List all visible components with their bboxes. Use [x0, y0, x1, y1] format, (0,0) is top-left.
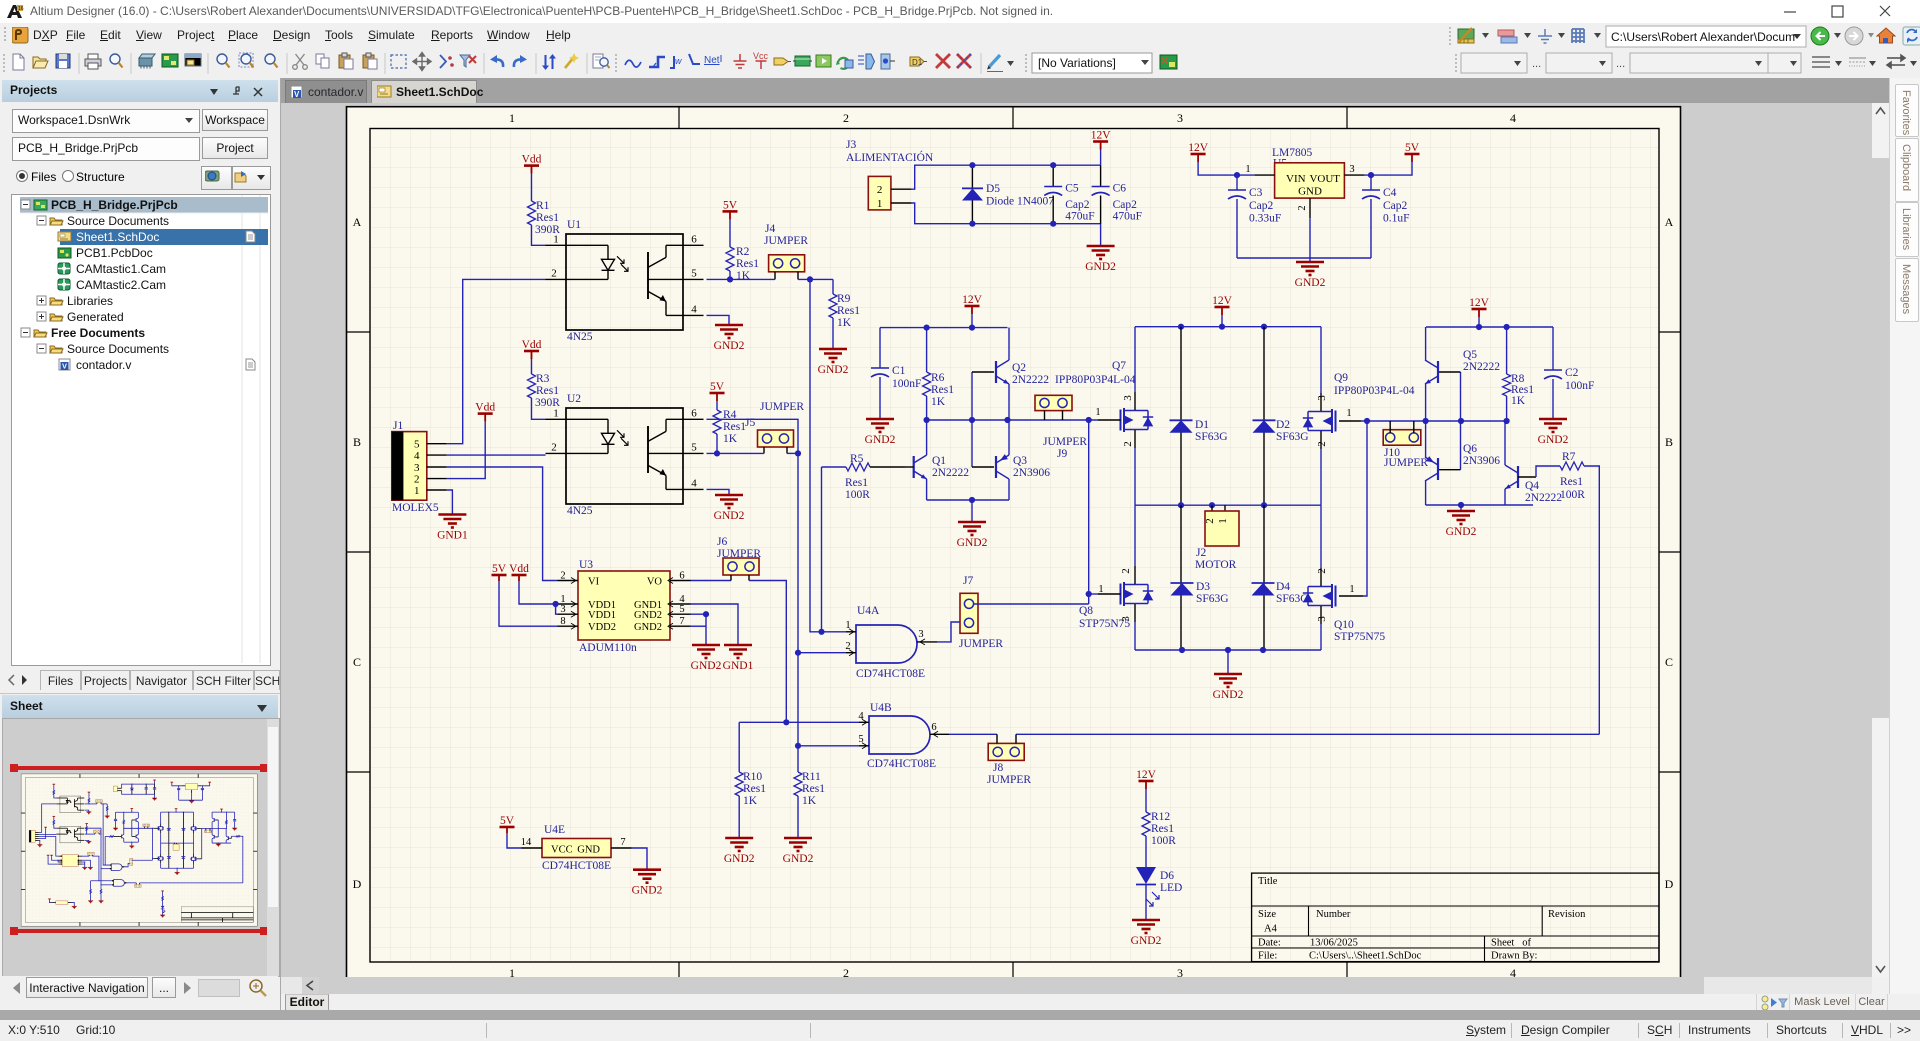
svg-text:5: 5: [691, 267, 697, 279]
svg-text:Q7: Q7: [1112, 360, 1126, 372]
svg-text:GND2: GND2: [1538, 434, 1569, 446]
svg-text:12V: 12V: [1212, 295, 1233, 307]
svg-text:A4: A4: [1264, 924, 1278, 935]
svg-text:Cap2: Cap2: [1383, 200, 1408, 212]
svg-text:GND2: GND2: [1213, 689, 1244, 701]
svg-text:4N25: 4N25: [567, 331, 593, 343]
svg-text:Sheet of: Sheet of: [1491, 938, 1531, 949]
svg-text:C: C: [1665, 655, 1673, 669]
svg-text:R10: R10: [743, 771, 762, 783]
svg-text:2: 2: [843, 966, 849, 977]
svg-text:1: 1: [509, 111, 515, 125]
svg-text:C6: C6: [1113, 183, 1127, 195]
svg-text:100nF: 100nF: [892, 378, 921, 390]
svg-text:GND2: GND2: [714, 340, 745, 352]
svg-text:GND2: GND2: [1446, 526, 1477, 538]
svg-text:Q8: Q8: [1079, 605, 1093, 617]
svg-text:J1: J1: [393, 420, 403, 432]
svg-text:R12: R12: [1151, 811, 1170, 823]
svg-text:470uF: 470uF: [1113, 211, 1142, 223]
svg-text:3: 3: [1349, 164, 1354, 175]
svg-text:D4: D4: [1276, 581, 1290, 593]
svg-text:1K: 1K: [837, 317, 852, 329]
svg-text:D: D: [1665, 877, 1674, 891]
svg-text:12V: 12V: [1091, 130, 1112, 142]
svg-text:Q2: Q2: [1012, 362, 1026, 374]
svg-text:JUMPER: JUMPER: [760, 401, 804, 413]
svg-text:1: 1: [509, 966, 515, 977]
svg-text:R9: R9: [837, 293, 851, 305]
svg-text:JUMPER: JUMPER: [1043, 436, 1087, 448]
svg-text:GND2: GND2: [632, 885, 663, 897]
svg-text:CD74HCT08E: CD74HCT08E: [867, 758, 936, 770]
svg-text:2: 2: [877, 184, 883, 196]
svg-text:A: A: [1665, 215, 1674, 229]
svg-text:R1: R1: [536, 200, 550, 212]
svg-text:VOUT: VOUT: [1309, 173, 1340, 185]
svg-text:1: 1: [1098, 584, 1103, 595]
svg-text:GND1: GND1: [723, 660, 754, 672]
svg-text:3: 3: [1316, 616, 1328, 622]
svg-text:GND2: GND2: [691, 660, 722, 672]
svg-text:5V: 5V: [500, 815, 515, 827]
svg-text:1: 1: [1095, 407, 1100, 418]
svg-text:PCB_H_Bridge.PrjPcb: PCB_H_Bridge.PrjPcb: [51, 198, 178, 212]
svg-text:IPP80P03P4L-04: IPP80P03P4L-04: [1334, 385, 1415, 397]
svg-text:GND2: GND2: [865, 434, 896, 446]
svg-text:B: B: [1665, 435, 1673, 449]
svg-text:Q1: Q1: [932, 455, 946, 467]
svg-text:GND2: GND2: [957, 537, 988, 549]
svg-text:GND1: GND1: [437, 530, 468, 542]
svg-text:1: 1: [414, 485, 420, 497]
svg-text:VO: VO: [647, 577, 663, 588]
svg-text:6: 6: [691, 233, 697, 245]
svg-text:1K: 1K: [931, 396, 946, 408]
svg-text:3: 3: [1316, 395, 1328, 401]
svg-text:GND2: GND2: [714, 510, 745, 522]
svg-text:GND: GND: [577, 845, 600, 856]
svg-text:3: 3: [1177, 966, 1183, 977]
svg-text:Vdd: Vdd: [509, 563, 529, 575]
svg-text:2N2222: 2N2222: [1463, 361, 1500, 373]
svg-text:STP75N75: STP75N75: [1334, 631, 1385, 643]
svg-text:1: 1: [1217, 518, 1229, 524]
svg-text:CD74HCT08E: CD74HCT08E: [856, 668, 925, 680]
svg-text:Res1: Res1: [536, 385, 559, 397]
svg-text:Drawn By:: Drawn By:: [1491, 950, 1537, 961]
svg-text:4N25: 4N25: [567, 505, 593, 517]
svg-text:SF63G: SF63G: [1276, 431, 1309, 443]
svg-text:Res1: Res1: [736, 258, 759, 270]
svg-text:7: 7: [620, 837, 625, 848]
svg-text:U4E: U4E: [544, 824, 565, 836]
svg-text:6: 6: [679, 571, 684, 582]
svg-text:8: 8: [560, 616, 565, 627]
svg-text:VDD1: VDD1: [588, 610, 616, 621]
svg-text:4: 4: [691, 477, 697, 489]
svg-text:2: 2: [414, 474, 420, 486]
svg-text:GND2: GND2: [783, 853, 814, 865]
svg-text:1K: 1K: [1511, 395, 1526, 407]
svg-text:J9: J9: [1057, 448, 1067, 460]
svg-text:5: 5: [679, 604, 684, 615]
svg-text:GND2: GND2: [634, 610, 662, 621]
svg-text:1: 1: [1349, 584, 1354, 595]
svg-text:12V: 12V: [1136, 769, 1157, 781]
svg-text:2N2222: 2N2222: [932, 467, 969, 479]
svg-text:2: 2: [1316, 568, 1328, 574]
svg-text:D: D: [353, 877, 362, 891]
svg-text:5V: 5V: [1405, 142, 1420, 154]
svg-text:D1: D1: [1195, 419, 1209, 431]
svg-text:ADUM110n: ADUM110n: [579, 642, 637, 654]
svg-text:A: A: [353, 215, 362, 229]
svg-text:GND2: GND2: [818, 364, 849, 376]
svg-text:JUMPER: JUMPER: [764, 235, 808, 247]
svg-text:2: 2: [1297, 205, 1308, 210]
svg-text:V: V: [294, 90, 300, 99]
svg-text:3: 3: [1122, 395, 1134, 401]
svg-text:Generated: Generated: [67, 310, 124, 324]
svg-text:13/06/2025: 13/06/2025: [1310, 938, 1358, 949]
svg-text:VCC: VCC: [551, 845, 573, 856]
svg-text:4: 4: [1510, 111, 1516, 125]
svg-text:7: 7: [679, 616, 684, 627]
svg-text:12V: 12V: [962, 294, 983, 306]
svg-text:Vcc: Vcc: [753, 51, 769, 61]
svg-text:4: 4: [1510, 966, 1516, 977]
svg-text:U1: U1: [567, 219, 581, 231]
svg-text:JUMPER: JUMPER: [987, 774, 1031, 786]
svg-text:U2: U2: [567, 393, 581, 405]
svg-text:Res1: Res1: [802, 783, 825, 795]
svg-text:1: 1: [877, 198, 883, 210]
svg-text:Q9: Q9: [1334, 372, 1348, 384]
svg-text:GND: GND: [1298, 186, 1322, 198]
svg-text:1: 1: [553, 407, 559, 419]
svg-text:Free Documents: Free Documents: [51, 326, 145, 340]
svg-text:R3: R3: [536, 373, 550, 385]
svg-text:C4: C4: [1383, 187, 1397, 199]
svg-text:12V: 12V: [1188, 142, 1209, 154]
svg-text:Res1: Res1: [845, 477, 868, 489]
svg-text:Title: Title: [1258, 876, 1278, 887]
svg-text:R7: R7: [1562, 451, 1576, 463]
svg-text:CD74HCT08E: CD74HCT08E: [542, 860, 611, 872]
svg-text:Cap2: Cap2: [1065, 199, 1090, 211]
svg-text:Q10: Q10: [1334, 619, 1354, 631]
svg-text:Date:: Date:: [1258, 938, 1281, 949]
svg-text:Source Documents: Source Documents: [67, 342, 169, 356]
svg-text:D6: D6: [1160, 870, 1174, 882]
svg-text:Vdd: Vdd: [475, 402, 495, 414]
svg-text:R5: R5: [850, 453, 864, 465]
svg-text:Number: Number: [1316, 909, 1351, 920]
svg-text:D1: D1: [912, 58, 923, 67]
svg-text:0.1uF: 0.1uF: [1383, 213, 1410, 225]
svg-text:Res1: Res1: [743, 783, 766, 795]
svg-text:Res1: Res1: [723, 421, 746, 433]
svg-text:LED: LED: [1160, 882, 1182, 894]
svg-text:2N2222: 2N2222: [1525, 492, 1562, 504]
svg-text:Vdd: Vdd: [522, 154, 542, 166]
svg-text:C:\Users\Robert Alexander\Docu: C:\Users\Robert Alexander\Docum: [1611, 30, 1795, 44]
svg-text:5: 5: [414, 439, 420, 451]
svg-text:R11: R11: [802, 771, 821, 783]
svg-text:Cap2: Cap2: [1249, 200, 1274, 212]
svg-text:5V: 5V: [492, 563, 507, 575]
svg-text:CAMtastic1.Cam: CAMtastic1.Cam: [76, 262, 166, 276]
svg-text:B: B: [353, 435, 361, 449]
svg-text:J4: J4: [765, 223, 775, 235]
svg-text:2: 2: [551, 441, 557, 453]
svg-text:1K: 1K: [802, 795, 817, 807]
svg-text:[No Variations]: [No Variations]: [1038, 56, 1116, 70]
svg-text:SF63G: SF63G: [1195, 431, 1228, 443]
svg-text:5V: 5V: [710, 381, 725, 393]
svg-text:2N2222: 2N2222: [1012, 374, 1049, 386]
svg-text:100R: 100R: [1151, 835, 1176, 847]
svg-text:...: ...: [1532, 58, 1541, 70]
svg-text:SF63G: SF63G: [1196, 593, 1229, 605]
svg-text:2: 2: [1316, 441, 1328, 447]
svg-text:GND2: GND2: [634, 622, 662, 633]
svg-text:4: 4: [858, 711, 864, 722]
svg-text:100nF: 100nF: [1565, 380, 1594, 392]
svg-text:1: 1: [845, 620, 850, 631]
svg-text:Res1: Res1: [536, 212, 559, 224]
svg-text:Diode 1N4007: Diode 1N4007: [986, 196, 1054, 208]
svg-text:Q6: Q6: [1463, 443, 1477, 455]
svg-text:JUMPER: JUMPER: [1384, 457, 1428, 469]
svg-text:D5: D5: [986, 183, 1000, 195]
svg-text:U4B: U4B: [870, 702, 892, 714]
svg-text:Q4: Q4: [1525, 480, 1539, 492]
svg-text:J7: J7: [963, 575, 973, 587]
svg-text:14: 14: [521, 837, 532, 848]
svg-text:Revision: Revision: [1548, 909, 1586, 920]
svg-text:IPP80P03P4L-04: IPP80P03P4L-04: [1055, 374, 1136, 386]
svg-text:V: V: [62, 362, 67, 371]
svg-text:C2: C2: [1565, 367, 1579, 379]
svg-text:2: 2: [1120, 568, 1132, 574]
svg-text:5: 5: [858, 734, 863, 745]
svg-text:Q5: Q5: [1463, 349, 1477, 361]
svg-text:Source Documents: Source Documents: [67, 214, 169, 228]
svg-text:D3: D3: [1196, 581, 1210, 593]
svg-text:...: ...: [1616, 58, 1625, 70]
svg-text:GND2: GND2: [724, 853, 755, 865]
svg-text:C3: C3: [1249, 187, 1263, 199]
svg-text:4: 4: [691, 303, 697, 315]
svg-text:U3: U3: [579, 559, 593, 571]
svg-text:C: C: [353, 655, 361, 669]
svg-text:2: 2: [1204, 518, 1216, 524]
svg-text:1K: 1K: [743, 795, 758, 807]
svg-text:3: 3: [414, 462, 420, 474]
svg-text:0.33uF: 0.33uF: [1249, 213, 1281, 225]
svg-text:ALIMENTACIÓN: ALIMENTACIÓN: [846, 150, 934, 164]
svg-text:PCB1.PcbDoc: PCB1.PcbDoc: [76, 246, 153, 260]
svg-text:GND2: GND2: [1295, 277, 1326, 289]
svg-text:2: 2: [843, 111, 849, 125]
svg-text:U4A: U4A: [857, 605, 880, 617]
svg-text:GND2: GND2: [1085, 261, 1116, 273]
svg-text:5: 5: [691, 441, 697, 453]
svg-text:CAMtastic2.Cam: CAMtastic2.Cam: [76, 278, 166, 292]
svg-text:Res1: Res1: [837, 305, 860, 317]
svg-text:Vdd: Vdd: [522, 339, 542, 351]
svg-text:VIN: VIN: [1286, 173, 1306, 185]
svg-text:12V: 12V: [1469, 297, 1490, 309]
svg-text:Libraries: Libraries: [67, 294, 113, 308]
svg-text:Cap2: Cap2: [1113, 199, 1138, 211]
svg-text:MOTOR: MOTOR: [1195, 559, 1237, 571]
svg-text:Res1: Res1: [931, 384, 954, 396]
svg-text:C1: C1: [892, 365, 906, 377]
svg-text:390R: 390R: [535, 224, 560, 236]
svg-text:6: 6: [691, 407, 697, 419]
svg-text:3: 3: [1120, 616, 1132, 622]
svg-text:1: 1: [1346, 408, 1351, 419]
svg-text:R2: R2: [736, 246, 750, 258]
svg-text:J6: J6: [717, 536, 727, 548]
svg-text:Sheet1.SchDoc: Sheet1.SchDoc: [76, 230, 159, 244]
svg-text:C5: C5: [1065, 183, 1079, 195]
svg-text:1K: 1K: [736, 270, 751, 282]
svg-text:2: 2: [1122, 441, 1134, 447]
svg-text:3: 3: [918, 629, 923, 640]
svg-text:C:\Users\..\Sheet1.SchDoc: C:\Users\..\Sheet1.SchDoc: [1309, 950, 1422, 961]
svg-text:Q3: Q3: [1013, 455, 1027, 467]
svg-text:16: 16: [18, 6, 24, 12]
svg-text:2: 2: [560, 571, 565, 582]
svg-text:2N3906: 2N3906: [1463, 455, 1500, 467]
svg-text:2: 2: [845, 641, 850, 652]
svg-text:1: 1: [1245, 164, 1250, 175]
svg-text:100R: 100R: [845, 489, 870, 501]
svg-text:J3: J3: [846, 139, 856, 151]
svg-text:Size: Size: [1258, 909, 1276, 920]
svg-text:File:: File:: [1258, 950, 1277, 961]
svg-text:6: 6: [931, 722, 936, 733]
svg-text:390R: 390R: [535, 397, 560, 409]
svg-text:D2: D2: [1276, 419, 1290, 431]
svg-text:MOLEX5: MOLEX5: [392, 502, 439, 514]
svg-text:SF63G: SF63G: [1276, 593, 1309, 605]
svg-text:Net: Net: [704, 55, 720, 66]
svg-text:470uF: 470uF: [1065, 211, 1094, 223]
svg-text:J2: J2: [1196, 547, 1206, 559]
svg-text:3: 3: [560, 604, 565, 615]
svg-text:contador.v: contador.v: [76, 358, 131, 372]
svg-text:w: w: [675, 56, 682, 66]
svg-text:1K: 1K: [723, 433, 738, 445]
svg-text:3: 3: [1177, 111, 1183, 125]
svg-text:GND2: GND2: [1131, 935, 1162, 947]
svg-text:5V: 5V: [723, 199, 738, 211]
svg-text:R6: R6: [931, 372, 945, 384]
svg-text:J8: J8: [993, 762, 1003, 774]
svg-text:2: 2: [551, 267, 557, 279]
svg-text:JUMPER: JUMPER: [959, 638, 1003, 650]
svg-text:2N3906: 2N3906: [1013, 467, 1050, 479]
svg-text:Res1: Res1: [1560, 476, 1583, 488]
svg-text:VI: VI: [588, 577, 600, 588]
svg-text:VDD2: VDD2: [588, 622, 616, 633]
svg-text:Res1: Res1: [1151, 823, 1174, 835]
svg-text:100R: 100R: [1560, 489, 1585, 501]
svg-text:4: 4: [414, 450, 420, 462]
